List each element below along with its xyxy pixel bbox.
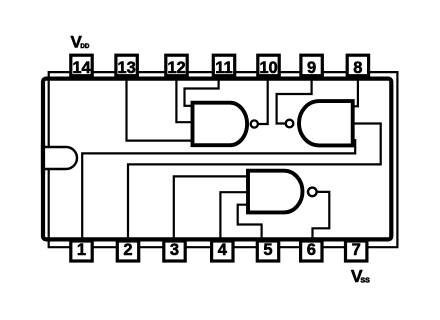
- wire pin 9 to gate U1B output: [277, 76, 312, 124]
- pin 13 box: [116, 55, 137, 77]
- NAND gate U1B (mirrored): [299, 101, 353, 145]
- pin 11 box: [213, 55, 234, 77]
- svg-text:3: 3: [170, 241, 179, 259]
- wire pin 3 to gate U1C input 1: [174, 176, 250, 242]
- wire pin 8 to gate U1B input 1: [351, 76, 358, 106]
- wire pin 13 to gate U1A input 3: [127, 76, 194, 141]
- svg-text:14: 14: [72, 59, 91, 77]
- IC left edge patch over notch: [41, 143, 45, 174]
- wire pin 12 to gate U1A input 2: [176, 76, 193, 122]
- svg-text:2: 2: [123, 241, 132, 259]
- pin 4 box: [212, 241, 233, 261]
- IC body (14-pin DIP outline): [43, 79, 391, 240]
- wire pin 1 to gate U1B input 3 (long horizontal): [82, 140, 355, 240]
- inverter bubble of U1B: [286, 120, 294, 128]
- svg-text:DD: DD: [80, 43, 89, 50]
- pin 10 box: [258, 55, 279, 77]
- VSS ground label: [351, 266, 370, 286]
- inverter bubble of U1C: [308, 188, 317, 197]
- svg-text:9: 9: [307, 59, 316, 77]
- pin 5 box: [257, 241, 278, 261]
- NAND gate U1A: [193, 103, 248, 146]
- svg-text:1: 1: [77, 241, 86, 259]
- pin 12 box: [166, 55, 187, 77]
- pin 3 box: [164, 241, 185, 261]
- wire gate U1C output to pin 6: [313, 192, 330, 242]
- wire pin 4 to gate U1C input 2: [220, 192, 250, 242]
- svg-text:10: 10: [259, 59, 277, 77]
- svg-text:8: 8: [353, 59, 362, 77]
- notch (pin-1 index mark): [42, 147, 77, 169]
- svg-text:SS: SS: [361, 278, 371, 285]
- svg-text:6: 6: [307, 241, 316, 259]
- inverter bubble of U1A: [251, 120, 258, 127]
- wire pin 5 to gate U1C input 3: [238, 205, 262, 242]
- svg-text:4: 4: [218, 241, 228, 259]
- pin 8 box: [347, 55, 368, 77]
- pin 2 box: [117, 241, 138, 261]
- svg-text:7: 7: [352, 241, 361, 259]
- wire gate U1A output to pin 10: [258, 76, 268, 124]
- pin 7 box: [346, 241, 367, 261]
- pin 9 box: [301, 55, 322, 77]
- pin 1 box: [71, 241, 92, 261]
- wire pin 2 to gate U1B input 2: [128, 124, 381, 243]
- svg-text:11: 11: [215, 59, 232, 77]
- NAND gate U1C: [248, 171, 303, 213]
- wire pin 11 to gate U1A input 1: [185, 76, 219, 106]
- pin 6 box: [301, 241, 322, 261]
- svg-text:12: 12: [167, 59, 185, 77]
- pin 14 box: [71, 55, 92, 77]
- svg-text:13: 13: [117, 59, 135, 77]
- VDD power label: [71, 32, 90, 51]
- svg-text:5: 5: [263, 241, 272, 259]
- pin rail loop (thin line behind pin boxes, around package): [49, 72, 398, 247]
